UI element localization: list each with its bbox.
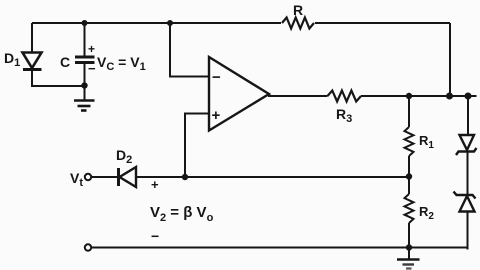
wire: capacitor bottom lead: [84, 63, 86, 87]
wire: inverting input from top rail: [170, 23, 209, 77]
wire: D1 left branch down from top rail: [31, 23, 33, 53]
zener diode Z1 (pointing down): [456, 135, 477, 155]
wire: capacitor top lead: [84, 23, 86, 57]
op-amp U1: [209, 57, 269, 131]
svg-text:+: +: [88, 42, 95, 56]
svg-text:−: −: [88, 61, 96, 76]
svg-text:+: +: [212, 107, 221, 124]
wire: op-amp output: [268, 95, 328, 97]
svg-text:C: C: [60, 54, 70, 70]
wire: top rail y=23 from D1 to right corner: [32, 22, 450, 24]
node: junction dot cap bottom: [81, 82, 87, 88]
node: junction dot R1/R2: [406, 173, 412, 179]
zener diode Z2 (pointing up): [454, 192, 476, 212]
node: junction dot cap top: [82, 20, 88, 26]
diode D2 (cathode left): [119, 167, 137, 187]
terminal Vt open circle: [85, 174, 91, 180]
wire: D1 bottom to capacitor bottom node: [32, 70, 85, 87]
wire: output line to right edge column: [361, 95, 477, 97]
wire: between zeners: [467, 152, 469, 196]
svg-text:−: −: [212, 69, 221, 86]
node: junction dot minus branch top: [167, 20, 173, 26]
node: junction dot zener column: [465, 93, 472, 100]
capacitor C plates: [75, 57, 95, 63]
wire: non-inverting input: [185, 114, 209, 178]
wire: D2 to plus tap: [136, 176, 185, 178]
wire: zener column bottom: [468, 212, 469, 249]
wire: R1 top lead: [408, 96, 410, 127]
resistor R zigzag: [282, 18, 314, 29]
svg-text:−: −: [151, 228, 159, 244]
wire: right feedback drop x=450: [449, 23, 451, 96]
ground under R2: [397, 248, 420, 269]
svg-text:R: R: [293, 2, 303, 18]
resistor R (gap cover): [281, 16, 315, 30]
resistor R2 zigzag: [405, 194, 414, 223]
wire: bottom rail: [92, 247, 469, 249]
wire: R1 bottom to mid node: [408, 156, 410, 194]
node: junction dot bottom: [406, 244, 412, 250]
ground under capacitor: [74, 86, 95, 111]
wire: R2 bottom lead: [408, 223, 410, 248]
resistor R3 zigzag: [328, 91, 362, 102]
svg-text:+: +: [151, 177, 159, 192]
diode D1 (anode top, cathode bottom): [23, 53, 42, 70]
terminal bottom open circle: [85, 244, 91, 250]
node: junction dot feedback column: [446, 93, 453, 100]
resistor R1 zigzag: [405, 127, 414, 156]
wire: feedback mid wire y=177: [185, 176, 409, 178]
node: junction dot output/R1: [406, 93, 412, 99]
wire: zener column top: [467, 96, 469, 135]
node: junction dot plus tap: [182, 174, 188, 180]
wire: Vt to D2: [92, 176, 119, 178]
